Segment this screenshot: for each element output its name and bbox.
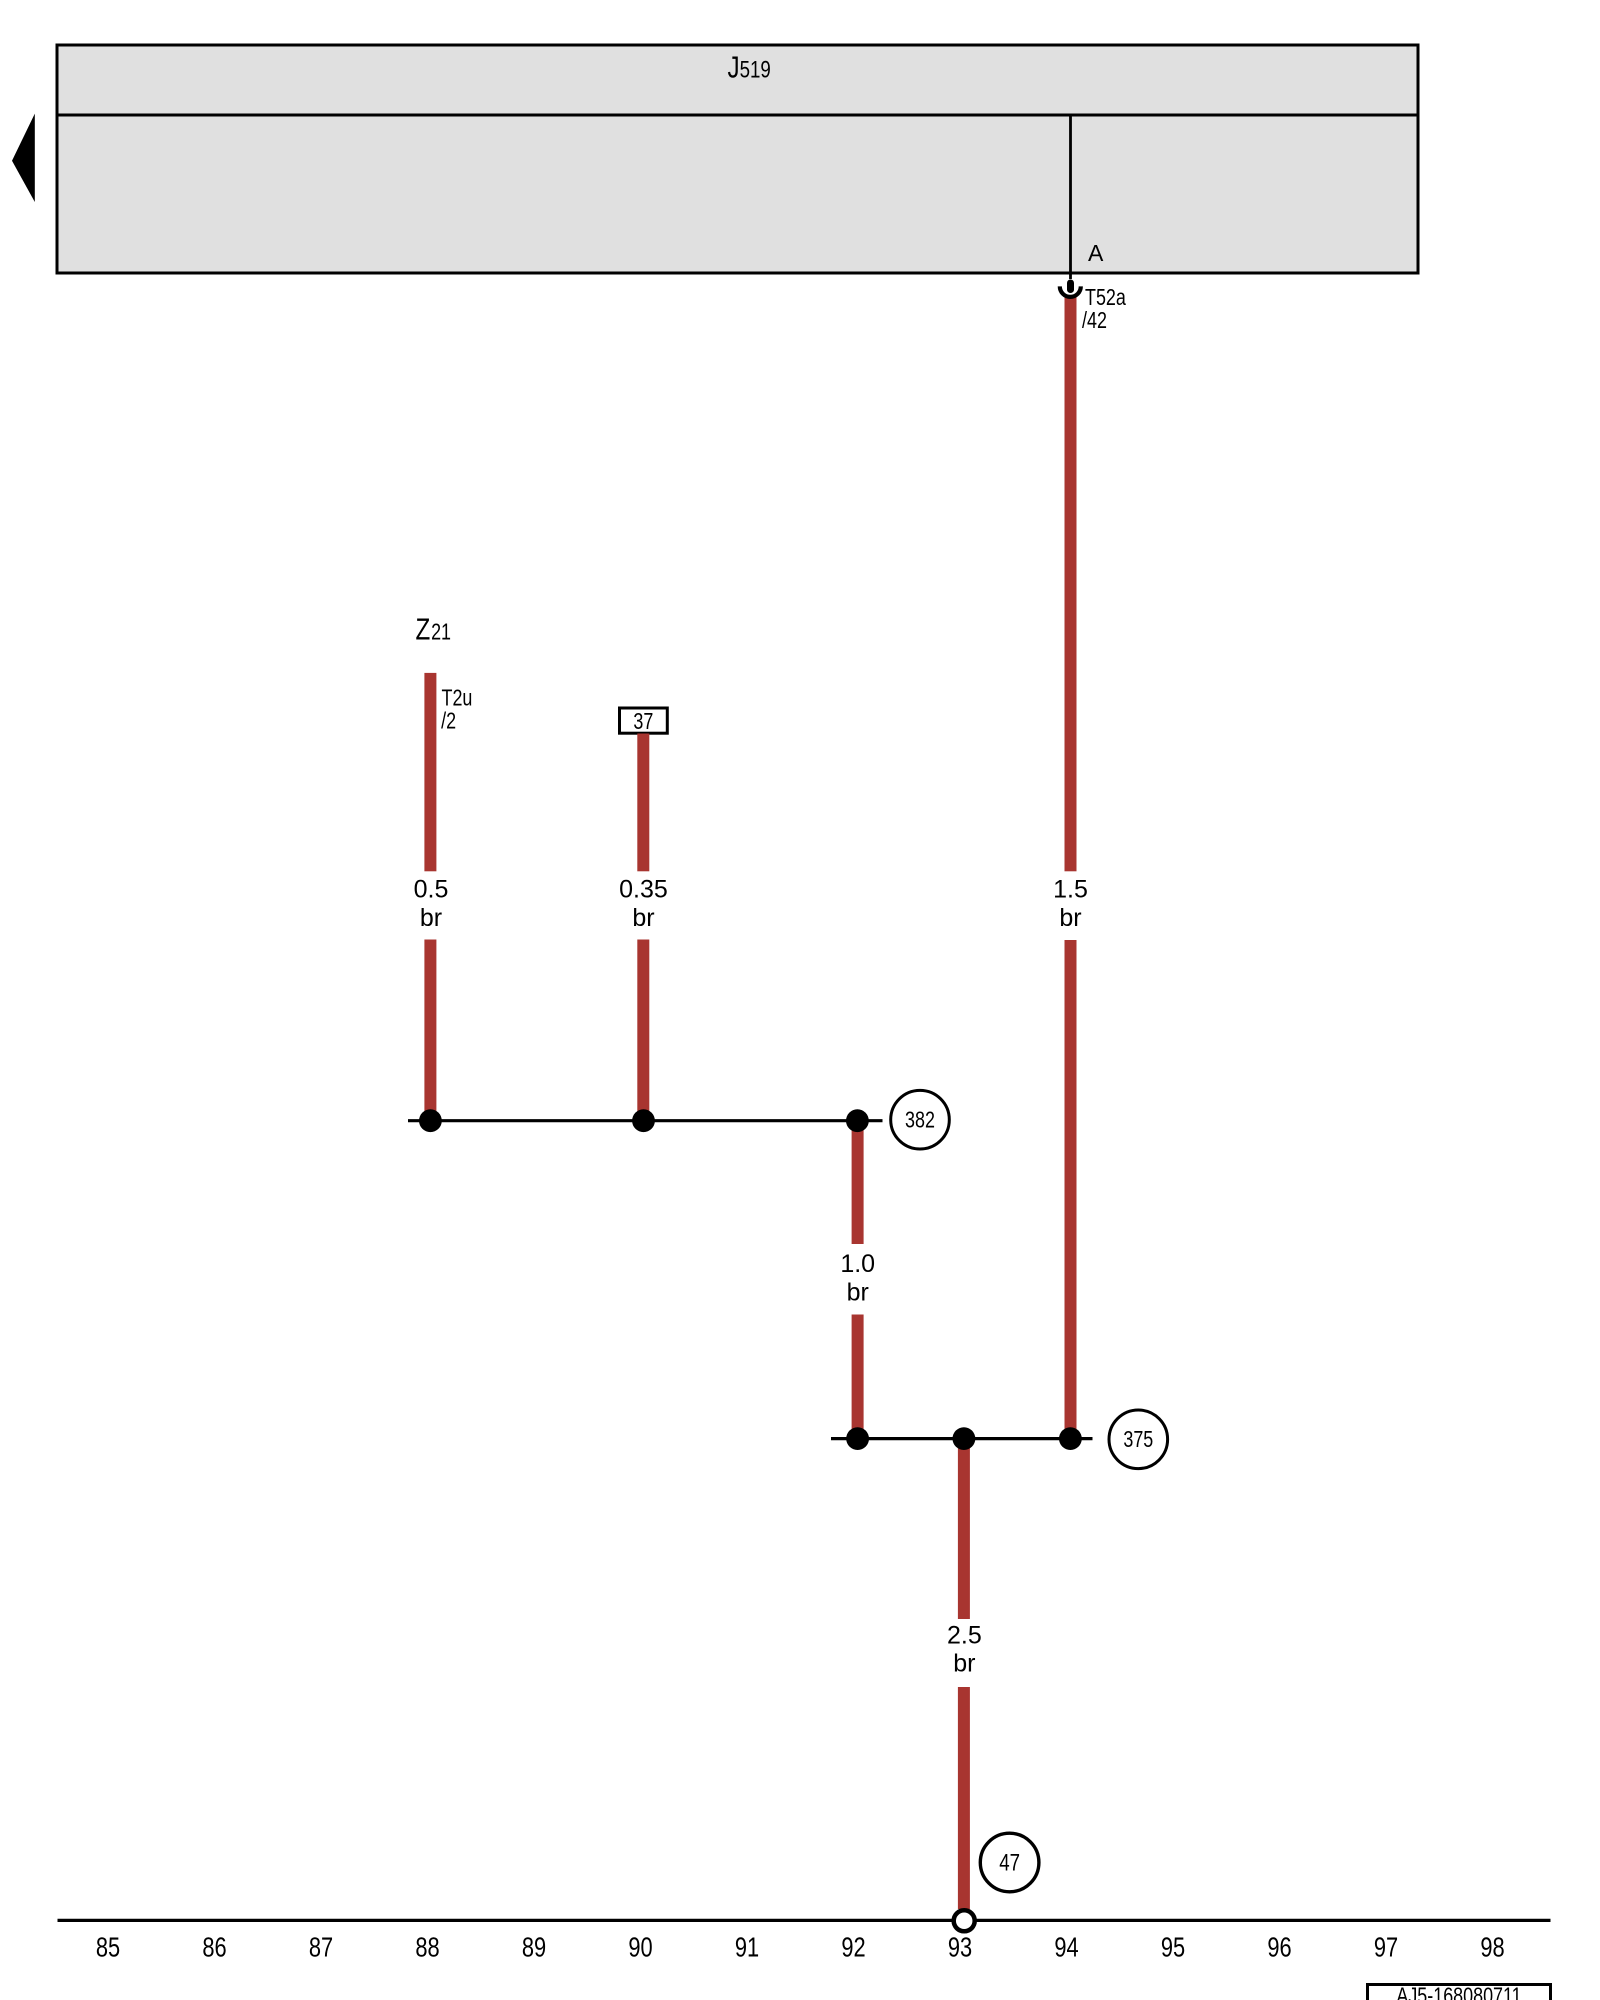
svg-text:1.0: 1.0: [840, 1250, 875, 1278]
junction bus line 375: [831, 1437, 1093, 1440]
wire inside module from divider to pin A: [1069, 116, 1072, 279]
junction dot: [419, 1109, 442, 1132]
wire 0.5 br label: [414, 876, 449, 933]
svg-text:T2u: T2u: [442, 685, 473, 711]
junction dot: [846, 1109, 869, 1132]
svg-text:0.5: 0.5: [414, 876, 449, 904]
connector pin T52a/42: [1060, 280, 1081, 297]
svg-text:br: br: [953, 1650, 975, 1678]
wire 0.5 br upper segment: [424, 673, 436, 871]
wire 2.5 br upper segment: [958, 1439, 970, 1619]
wire 1.5 br label: [1053, 876, 1088, 933]
svg-text:98: 98: [1480, 1932, 1504, 1963]
wire 0.35 br lower segment: [637, 940, 649, 1122]
svg-text:94: 94: [1054, 1932, 1078, 1963]
control module box J519: [57, 45, 1418, 273]
wire 2.5 br label: [947, 1622, 982, 1678]
svg-text:br: br: [1059, 904, 1081, 932]
svg-text:A: A: [1088, 240, 1104, 266]
svg-text:br: br: [632, 904, 654, 932]
svg-text:21: 21: [431, 619, 451, 645]
svg-text:88: 88: [415, 1932, 439, 1963]
svg-text:519: 519: [740, 56, 771, 83]
wire 0.35 br label: [619, 876, 668, 933]
svg-text:375: 375: [1123, 1427, 1153, 1453]
svg-text:91: 91: [735, 1932, 759, 1963]
svg-text:47: 47: [999, 1849, 1020, 1876]
label J519: [728, 50, 771, 85]
svg-text:2.5: 2.5: [947, 1622, 982, 1650]
svg-text:87: 87: [309, 1932, 333, 1963]
svg-text:86: 86: [202, 1932, 226, 1963]
svg-text:br: br: [420, 904, 442, 932]
svg-text:J: J: [728, 50, 740, 85]
svg-text:/42: /42: [1082, 308, 1107, 334]
connector label T2u /2: [441, 685, 472, 734]
svg-text:89: 89: [522, 1932, 546, 1963]
svg-text:93: 93: [948, 1932, 972, 1963]
svg-text:/2: /2: [441, 709, 456, 735]
svg-text:br: br: [847, 1279, 869, 1307]
junction dot: [846, 1427, 869, 1450]
svg-text:AJ5-168080711: AJ5-168080711: [1396, 1983, 1521, 2000]
svg-text:Z: Z: [416, 612, 431, 647]
svg-text:92: 92: [841, 1932, 865, 1963]
svg-text:382: 382: [905, 1107, 935, 1133]
wire 1.0 br label: [840, 1250, 875, 1307]
svg-text:97: 97: [1374, 1932, 1398, 1963]
ground strap Z21 label: [416, 612, 452, 647]
junction dot: [632, 1109, 655, 1132]
wire reference box 37: [620, 708, 668, 734]
drawing number box AJ5-168080711: [1368, 1983, 1551, 2000]
junction dot: [953, 1427, 976, 1450]
current-flow arrow (left triangle): [12, 114, 35, 202]
node number circle 382: [891, 1090, 950, 1149]
svg-text:85: 85: [96, 1932, 120, 1963]
wire 1.5 br upper segment: [1065, 295, 1077, 871]
track numbers 85-98: [96, 1932, 1505, 1963]
svg-text:95: 95: [1161, 1932, 1185, 1963]
bottom rail line: [58, 1919, 1551, 1922]
node number circle 375: [1109, 1410, 1168, 1469]
wire 2.5 br lower segment: [958, 1687, 970, 1909]
wire 1.0 br upper segment: [852, 1121, 864, 1244]
wire 0.5 br lower segment: [424, 940, 436, 1122]
svg-text:0.35: 0.35: [619, 876, 668, 904]
svg-text:96: 96: [1267, 1932, 1291, 1963]
svg-text:37: 37: [633, 709, 653, 735]
ground terminal symbol: [954, 1910, 975, 1931]
svg-text:1.5: 1.5: [1053, 876, 1088, 904]
junction bus line 382: [408, 1119, 883, 1122]
connector label T52a /42: [1082, 285, 1126, 334]
wire 1.5 br lower segment: [1065, 940, 1077, 1438]
wire 1.0 br lower segment: [852, 1315, 864, 1439]
svg-text:T52a: T52a: [1085, 285, 1126, 311]
junction dot: [1059, 1427, 1082, 1450]
svg-text:90: 90: [628, 1932, 652, 1963]
ground reference circle 47: [980, 1833, 1039, 1892]
wire 0.35 br upper segment: [637, 734, 649, 872]
